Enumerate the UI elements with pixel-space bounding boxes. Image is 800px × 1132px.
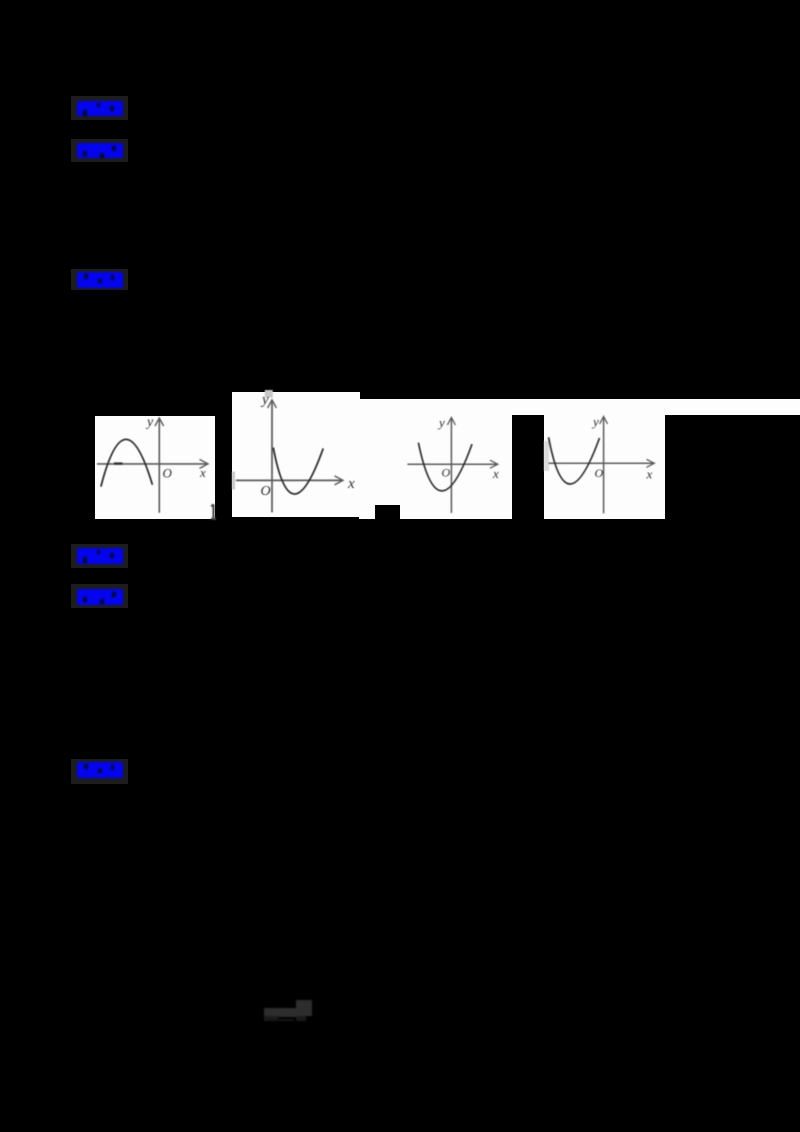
white image box 4 background: [544, 414, 665, 519]
black notch in region 3: [375, 505, 400, 519]
y-axis arrow: [447, 417, 455, 425]
svg-text:x: x: [347, 476, 355, 492]
tick dash on x-axis: [114, 462, 123, 464]
svg-text:x: x: [646, 467, 653, 482]
svg-text:x: x: [492, 466, 499, 481]
label tag5 explain 【详解】: [71, 584, 128, 608]
parabola curve opening up: [273, 448, 323, 494]
label tag3 tips 【点睛】: [71, 269, 128, 290]
label tag6 tips 【点睛】: [71, 759, 128, 784]
graph C (box 3): upward parabola astride y-axis: [359, 399, 512, 519]
x-axis: [236, 479, 342, 481]
label tag1 analysis 【分析】: [71, 96, 128, 120]
gray inline formula image blob: [260, 996, 320, 1026]
white top strip to right page edge: [359, 399, 800, 415]
x-axis arrow: [335, 476, 344, 485]
light gray artifact above y label: [265, 390, 273, 398]
parabola curve opening up: [418, 443, 472, 491]
graph B (box 2): upward parabola vertex right of y-axis: [232, 392, 360, 517]
svg-text:y: y: [145, 415, 154, 430]
svg-text:y: y: [260, 392, 269, 408]
svg-text:O: O: [595, 466, 604, 480]
label tag4 analysis 【分析】: [71, 544, 128, 568]
x-axis arrow: [200, 459, 209, 468]
figure number 1 mark: [211, 504, 216, 519]
y-axis: [158, 419, 160, 513]
svg-text:O: O: [442, 466, 451, 480]
x-axis: [549, 462, 654, 464]
y-axis: [271, 401, 273, 513]
graph D (box 4): upward parabola left of y-axis: [544, 414, 665, 519]
x-axis: [97, 463, 207, 465]
x-axis arrow: [647, 459, 655, 467]
parabola curve opening up: [549, 437, 600, 484]
x-axis arrow: [490, 460, 498, 468]
light gray artifact left edge: [232, 472, 235, 490]
svg-text:O: O: [163, 466, 173, 481]
x-axis: [407, 463, 497, 465]
white region with graph 3: [359, 414, 512, 519]
white image box 2 background: [232, 392, 360, 517]
graph A (box 1): downward parabola left of y-axis: [95, 416, 215, 519]
light gray artifact left edge: [544, 441, 549, 471]
svg-text:y: y: [591, 414, 599, 429]
white image box 1 background: [95, 416, 215, 519]
y-axis arrow: [600, 416, 608, 424]
y-axis: [450, 418, 452, 513]
y-axis arrow: [155, 418, 164, 426]
y-axis arrow: [268, 400, 277, 408]
svg-text:x: x: [199, 465, 206, 480]
y-axis: [603, 417, 605, 513]
svg-text:O: O: [261, 484, 271, 499]
label tag2 explain 【详解】: [71, 139, 128, 162]
parabola curve opening down: [101, 439, 152, 486]
svg-text:y: y: [437, 415, 445, 430]
